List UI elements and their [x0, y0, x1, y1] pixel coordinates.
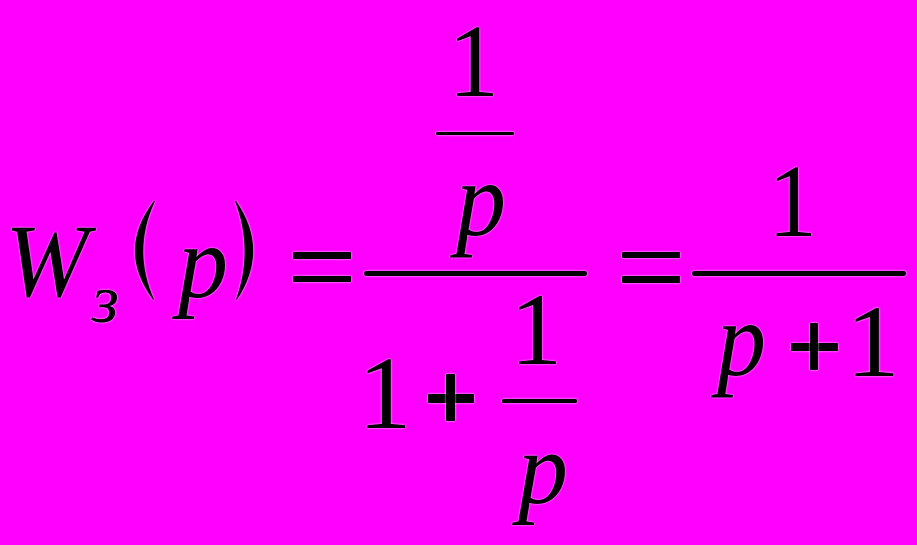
- main fraction bar: [364, 271, 587, 276]
- subscript Cyrillic ze: [92, 266, 119, 334]
- second fraction bar: [692, 271, 906, 276]
- plus sign 2 horizontal stroke: [791, 343, 838, 351]
- second fraction numerator 1: [768, 150, 817, 254]
- equals sign 2 top bar: [622, 252, 680, 258]
- W (transfer function symbol): [5, 210, 89, 314]
- equals sign 1 top bar: [293, 252, 351, 259]
- nested denominator p: [518, 418, 568, 521]
- plus sign 1 horizontal stroke: [428, 394, 475, 403]
- second fraction denominator p: [717, 288, 766, 393]
- numerator-of-numerator 1: [448, 10, 499, 114]
- equals sign 1 bottom bar: [293, 276, 351, 283]
- denominator-of-numerator p: [456, 148, 506, 253]
- right parenthesis: [230, 196, 260, 306]
- plus sign 2 vertical stroke: [810, 323, 818, 370]
- argument p: [178, 211, 228, 315]
- plus sign 1 vertical stroke: [446, 374, 455, 421]
- nested fraction bar (1/p numerator): [436, 132, 514, 136]
- nested fraction bar (denominator 1/p): [502, 399, 577, 403]
- left parenthesis: [130, 196, 160, 306]
- second fraction denominator 1: [846, 291, 900, 393]
- equals sign 2 bottom bar: [622, 276, 680, 283]
- nested numerator 1: [510, 279, 562, 381]
- denominator leading 1: [358, 342, 412, 446]
